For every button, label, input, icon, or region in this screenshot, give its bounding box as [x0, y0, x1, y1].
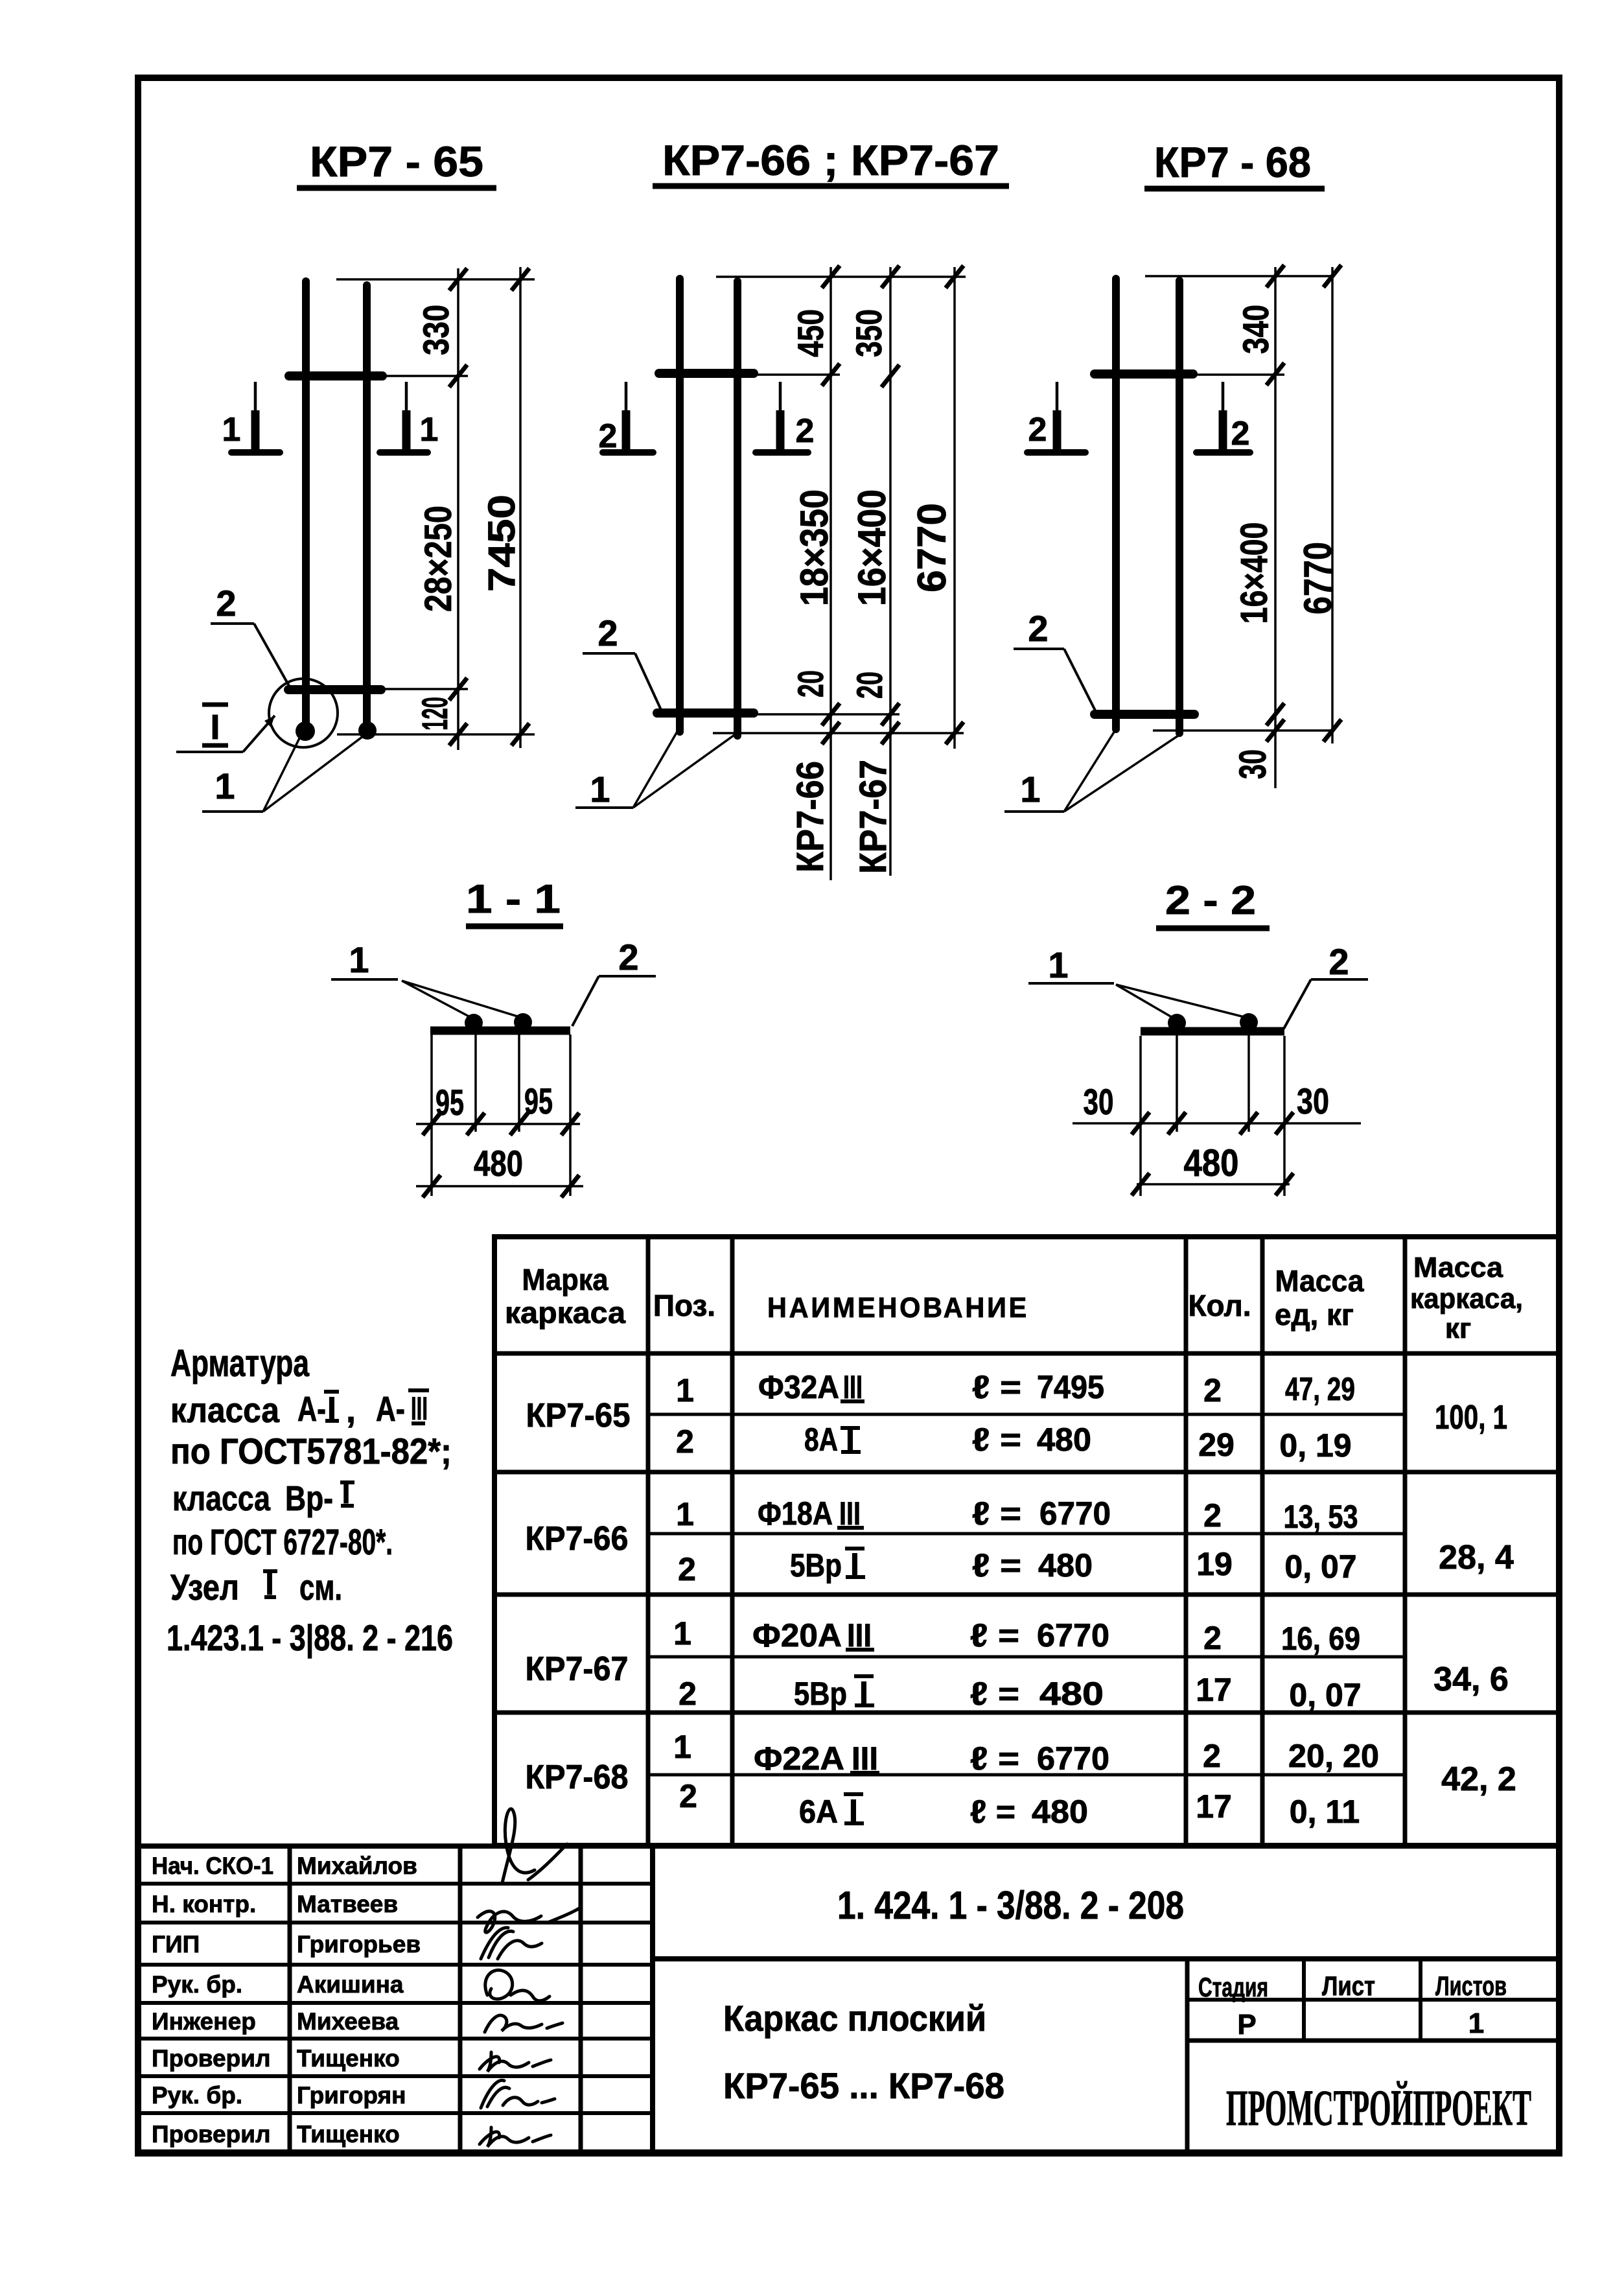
svg-text:КР7-65 ... КР7-68: КР7-65 ... КР7-68: [723, 2065, 1004, 2106]
svg-text:1: 1: [420, 411, 439, 449]
signature row 7 autograph: [481, 2080, 555, 2108]
signature row 3 autograph: [481, 1928, 542, 1959]
svg-text:20, 20: 20, 20: [1288, 1738, 1379, 1774]
KP7-66 dimension line KP7-66: [829, 267, 832, 880]
svg-text:КР7 - 65: КР7 - 65: [310, 137, 483, 185]
KP7-65 anchor dot left bar: [296, 721, 315, 741]
svg-text:95: 95: [524, 1081, 553, 1121]
section 2-2 rebar dot 1 right: [1240, 1013, 1258, 1031]
svg-text:Нач. СКО-1: Нач. СКО-1: [152, 1853, 273, 1879]
title KP7-66;67 underline: [653, 183, 1009, 189]
svg-text:КР7-68: КР7-68: [526, 1759, 629, 1796]
svg-text:КР7 - 68: КР7 - 68: [1154, 138, 1311, 186]
svg-text:Матвеев: Матвеев: [297, 1891, 398, 1917]
svg-text:ПРОМСТРОЙПРОЕКТ: ПРОМСТРОЙПРОЕКТ: [1226, 2079, 1531, 2136]
KP7-65 rebar bar pos.1 right: [363, 285, 371, 731]
svg-text:16×400: 16×400: [1233, 522, 1275, 624]
svg-text:1: 1: [673, 1615, 691, 1652]
svg-text:480: 480: [1037, 1421, 1091, 1458]
section mark 1-1 left trace line: [254, 382, 257, 410]
svg-text:30: 30: [1232, 749, 1274, 779]
svg-text:2: 2: [678, 1551, 696, 1587]
signature row 1 autograph: [502, 1809, 567, 1883]
svg-text:каркаса: каркаса: [505, 1296, 625, 1329]
KP7-66 leader label 1 line: [575, 806, 633, 809]
svg-text:1: 1: [676, 1372, 694, 1409]
section 2-2 label 2 leader: [1311, 978, 1368, 981]
KP7-68 rebar bar pos.1 right: [1176, 281, 1183, 733]
section mark 2-2 mid-left trace line: [625, 382, 628, 410]
svg-text:I: I: [210, 708, 220, 747]
signature row 6 autograph: [480, 2052, 551, 2072]
svg-text:20: 20: [849, 672, 890, 699]
svg-text:95: 95: [435, 1082, 464, 1123]
KP7-68 rebar bar pos.1 left: [1112, 279, 1120, 729]
svg-text:8А: 8А: [804, 1421, 838, 1458]
signature row 4 autograph: [485, 1970, 550, 2000]
svg-text:Григорьев: Григорьев: [297, 1931, 421, 1958]
KP7-65 leader label 2 line: [211, 622, 254, 625]
section mark 2-2 right-right thick stub: [1219, 410, 1227, 450]
section mark 2-2 mid-right trace line: [779, 382, 782, 410]
KP7-68 top extension line: [1145, 275, 1334, 277]
svg-text:2: 2: [597, 613, 618, 653]
svg-text:Поз.: Поз.: [653, 1289, 715, 1322]
svg-text:Ф18А: Ф18А: [758, 1495, 833, 1532]
KP7-66 leader label 2 line: [583, 652, 635, 655]
svg-text:Рук. бр.: Рук. бр.: [152, 1971, 242, 1998]
svg-text:ℓ =: ℓ =: [972, 1547, 1021, 1584]
svg-text:,: ,: [346, 1391, 356, 1430]
KP7-65 top extension line: [336, 278, 535, 281]
svg-text:480: 480: [1038, 1547, 1093, 1584]
section mark 2-2 right-right trace line: [1222, 382, 1225, 410]
svg-text:КР7-66: КР7-66: [789, 761, 831, 872]
drawing sheet frame border: [138, 78, 1559, 2153]
svg-text:Проверил: Проверил: [152, 2121, 270, 2147]
svg-text:6А: 6А: [799, 1794, 838, 1830]
svg-text:ед, кг: ед, кг: [1275, 1298, 1354, 1331]
svg-text:1: 1: [349, 939, 369, 980]
svg-text:350: 350: [848, 309, 889, 357]
section 1-1 plate bar: [430, 1027, 570, 1035]
svg-text:ГИП: ГИП: [152, 1931, 200, 1958]
signature table top edge: [138, 1843, 1559, 1849]
section mark 2-2 mid-left base line: [603, 449, 653, 456]
svg-text:по ГОСТ 6727-80*.: по ГОСТ 6727-80*.: [172, 1521, 393, 1562]
svg-text:20: 20: [790, 670, 831, 697]
svg-text:340: 340: [1235, 305, 1276, 354]
KP7-68 leader label 2 line: [1014, 648, 1064, 650]
signature table bottom edge: [138, 2149, 1559, 2155]
KP7-66 bottom cross rod pos.2: [657, 708, 754, 718]
svg-text:ℓ =: ℓ =: [970, 1676, 1019, 1712]
KP7-65 extension from top cross rod: [384, 375, 468, 377]
svg-text:Лист: Лист: [1322, 1971, 1375, 2001]
svg-text:Р: Р: [1237, 2009, 1256, 2041]
svg-text:2: 2: [1028, 411, 1047, 449]
svg-text:Михеева: Михеева: [297, 2008, 399, 2035]
KP7-65 leader label 1 line: [202, 810, 263, 813]
svg-text:КР7-65: КР7-65: [526, 1397, 631, 1434]
section mark 1-1 right trace line: [405, 382, 408, 410]
svg-text:7450: 7450: [481, 495, 523, 592]
section 1-1 extension lines: [430, 1035, 433, 1196]
svg-text:кг: кг: [1445, 1313, 1471, 1344]
section mark 1-1 left thick stub: [251, 410, 260, 450]
KP7-66 top extension line: [716, 275, 966, 278]
svg-text:19: 19: [1196, 1546, 1233, 1582]
KP7-66 extension from bottom cross rod: [755, 713, 899, 716]
KP7-68 bottom extension line: [1153, 729, 1334, 732]
svg-text:Ф22А: Ф22А: [754, 1740, 844, 1777]
title block stadia column line: [1185, 1959, 1190, 2153]
svg-text:ℓ =: ℓ =: [972, 1495, 1021, 1532]
svg-text:2: 2: [1203, 1497, 1222, 1534]
svg-text:480: 480: [1039, 1676, 1104, 1712]
KP7-65 node label I leader: [176, 751, 243, 753]
KP7-68 dimension line outer: [1331, 267, 1334, 743]
svg-text:0, 07: 0, 07: [1284, 1549, 1356, 1585]
svg-text:ℓ =: ℓ =: [970, 1794, 1015, 1830]
KP7-65 dimension line inner: [457, 268, 459, 750]
svg-text:28, 4: 28, 4: [1439, 1539, 1514, 1576]
svg-text:Инженер: Инженер: [152, 2008, 256, 2035]
KP7-65 extension from bottom cross rod: [385, 688, 468, 690]
svg-text:28×250: 28×250: [417, 506, 459, 612]
signature row 8 autograph: [480, 2127, 551, 2147]
svg-text:13, 53: 13, 53: [1284, 1499, 1358, 1535]
svg-text:7495: 7495: [1037, 1369, 1104, 1405]
KP7-65 anchor dot right bar: [358, 721, 377, 740]
KP7-68 extension from top cross rod: [1194, 373, 1284, 376]
svg-text:2: 2: [1203, 1620, 1222, 1656]
svg-text:Акишина: Акишина: [297, 1971, 404, 1998]
KP7-66 rebar bar pos.1 left: [676, 279, 684, 732]
section 1-1 label 2 leader: [599, 975, 656, 977]
KP7-66 rebar bar pos.1 right: [734, 281, 741, 736]
svg-text:2: 2: [679, 1778, 697, 1814]
svg-text:Арматура: Арматура: [170, 1342, 310, 1385]
section mark 2-2 mid-left thick stub: [622, 410, 631, 450]
svg-text:Михайлов: Михайлов: [297, 1853, 417, 1879]
title KP7-65 underline: [297, 185, 496, 191]
svg-text:Узел: Узел: [170, 1567, 239, 1608]
svg-text:Н. контр.: Н. контр.: [152, 1891, 256, 1917]
signature table vertical lines: [288, 1846, 292, 2153]
svg-text:2: 2: [599, 417, 618, 455]
svg-text:6770: 6770: [910, 503, 955, 592]
svg-text:ℓ =: ℓ =: [970, 1740, 1019, 1777]
svg-text:2: 2: [676, 1423, 694, 1460]
section 2-2 label 1 leader: [1028, 982, 1114, 985]
svg-text:2: 2: [1328, 941, 1349, 982]
svg-text:Ф32А: Ф32А: [758, 1369, 839, 1405]
KP7-66 dimension line overall: [953, 267, 956, 749]
svg-text:2: 2: [679, 1676, 697, 1712]
KP7-65 top cross rod pos.2: [289, 371, 382, 380]
svg-text:17: 17: [1196, 1672, 1232, 1708]
svg-text:ℓ =: ℓ =: [972, 1369, 1021, 1405]
svg-text:450: 450: [790, 309, 831, 357]
svg-text:А-: А-: [297, 1390, 326, 1429]
svg-text:30: 30: [1297, 1081, 1329, 1121]
section 2-2 title underline: [1156, 926, 1270, 931]
section mark 2-2 right-left thick stub: [1053, 410, 1061, 450]
svg-text:6770: 6770: [1296, 542, 1340, 614]
svg-text:класса: класса: [170, 1391, 280, 1430]
section mark 1-1 right thick stub: [402, 410, 411, 450]
svg-text:2: 2: [1203, 1372, 1222, 1409]
svg-text:НАИМЕНОВАНИЕ: НАИМЕНОВАНИЕ: [767, 1292, 1029, 1324]
section mark 2-2 mid-right thick stub: [776, 410, 785, 450]
svg-text:2: 2: [1203, 1738, 1221, 1774]
KP7-68 leader label 1 line: [1004, 810, 1064, 813]
svg-text:34, 6: 34, 6: [1433, 1661, 1509, 1698]
section 2-2 dim line 30-30: [1073, 1122, 1361, 1125]
svg-text:2: 2: [1231, 415, 1250, 452]
KP7-65 rebar bar pos.1 left: [302, 281, 310, 731]
parts table vertical grid lines: [646, 1237, 651, 1845]
svg-text:16, 69: 16, 69: [1281, 1620, 1360, 1657]
svg-text:18×350: 18×350: [793, 489, 836, 606]
svg-text:Тищенко: Тищенко: [297, 2045, 400, 2072]
svg-text:Стадия: Стадия: [1198, 1972, 1268, 2002]
svg-text:каркаса,: каркаса,: [1410, 1283, 1523, 1315]
parts table outer border: [494, 1237, 1559, 1845]
title block stadia/list value line: [1187, 2039, 1559, 2043]
parts table header bottom line: [494, 1351, 1559, 1356]
svg-text:КР7-67: КР7-67: [852, 760, 894, 874]
svg-text:480: 480: [474, 1143, 523, 1184]
svg-text:Марка: Марка: [522, 1263, 609, 1296]
svg-text:2 - 2: 2 - 2: [1165, 878, 1256, 923]
svg-text:1: 1: [676, 1496, 694, 1532]
svg-text:Кол.: Кол.: [1188, 1289, 1251, 1322]
svg-text:2: 2: [618, 937, 638, 977]
section 1-1 label 1 leader: [331, 978, 398, 981]
svg-text:1.423.1 - 3|88. 2 - 216: 1.423.1 - 3|88. 2 - 216: [167, 1617, 453, 1659]
KP7-65 bottom extension line: [337, 733, 535, 736]
svg-text:47, 29: 47, 29: [1285, 1371, 1355, 1407]
svg-text:120: 120: [414, 697, 455, 731]
svg-text:0, 11: 0, 11: [1290, 1794, 1360, 1830]
svg-text:1: 1: [215, 766, 235, 806]
svg-text:1: 1: [590, 769, 610, 810]
section mark 2-2 right-left base line: [1027, 449, 1085, 456]
svg-text:Вр-: Вр-: [285, 1479, 333, 1518]
svg-text:1: 1: [1020, 769, 1040, 810]
svg-text:Ф20А: Ф20А: [752, 1617, 842, 1654]
svg-text:III: III: [411, 1390, 428, 1427]
svg-text:1: 1: [673, 1729, 691, 1765]
svg-text:5Вр: 5Вр: [794, 1676, 847, 1712]
section 1-1 dim line 480: [416, 1185, 583, 1187]
svg-text:330: 330: [415, 305, 456, 355]
svg-text:Григорян: Григорян: [297, 2082, 406, 2109]
KP7-65 dimension line outer: [519, 267, 522, 748]
title block list column line: [1302, 1959, 1306, 2041]
svg-text:Тищенко: Тищенко: [297, 2121, 400, 2147]
svg-text:Масса: Масса: [1275, 1264, 1364, 1298]
svg-text:КР7-66: КР7-66: [526, 1520, 629, 1558]
signature row 2 autograph: [478, 1907, 581, 1932]
svg-text:0, 07: 0, 07: [1289, 1677, 1361, 1713]
svg-text:см.: см.: [299, 1567, 342, 1608]
svg-text:2: 2: [796, 412, 815, 450]
svg-text:480: 480: [1184, 1142, 1239, 1184]
signature row 5 autograph: [485, 2015, 563, 2032]
svg-text:6770: 6770: [1037, 1617, 1109, 1654]
section 2-2 dim line 480: [1137, 1183, 1290, 1186]
section 2-2 rebar dot 1 left: [1168, 1014, 1186, 1032]
KP7-68 top cross rod pos.2: [1095, 369, 1193, 379]
svg-text:17: 17: [1196, 1788, 1232, 1825]
svg-text:1: 1: [222, 411, 241, 449]
svg-text:5Вр: 5Вр: [790, 1547, 842, 1584]
svg-text:Масса: Масса: [1413, 1252, 1503, 1283]
title KP7-68 underline: [1144, 186, 1325, 192]
section 2-2 extension lines: [1139, 1036, 1142, 1196]
section mark 1-1 left base line: [231, 449, 280, 456]
section 2-2 plate bar: [1141, 1027, 1284, 1036]
KP7-66 extension from top cross rod: [755, 373, 840, 376]
svg-text:16×400: 16×400: [850, 489, 894, 606]
svg-text:1: 1: [1468, 2007, 1484, 2039]
svg-text:6770: 6770: [1039, 1495, 1111, 1532]
svg-text:ℓ =: ℓ =: [970, 1617, 1019, 1654]
section mark 2-2 right-right base line: [1196, 449, 1250, 456]
title block listov column line: [1419, 1959, 1422, 2041]
title block left edge: [650, 1846, 655, 2153]
parts table sub-row split lines: [648, 1413, 1405, 1416]
title block document number cell bottom: [653, 1956, 1559, 1961]
svg-text:480: 480: [1032, 1794, 1088, 1830]
KP7-66 top cross rod pos.2: [659, 369, 754, 378]
svg-text:6770: 6770: [1037, 1740, 1109, 1777]
KP7-68 dimension line inner: [1274, 267, 1277, 788]
section 1-1 dim line 95-95: [416, 1123, 580, 1125]
svg-text:1 - 1: 1 - 1: [466, 877, 561, 922]
svg-text:Каркас плоский: Каркас плоский: [723, 1998, 986, 2039]
svg-text:класса: класса: [172, 1479, 271, 1518]
svg-text:КР7-67: КР7-67: [526, 1650, 629, 1688]
svg-text:29: 29: [1198, 1427, 1235, 1463]
section 1-1 title underline: [466, 924, 563, 930]
svg-text:1. 424. 1 - 3/88. 2 - 208: 1. 424. 1 - 3/88. 2 - 208: [837, 1884, 1184, 1927]
title block stadia/list header line: [1187, 1998, 1559, 2002]
svg-text:КР7-66 ; КР7-67: КР7-66 ; КР7-67: [662, 136, 999, 184]
section mark 2-2 mid-right base line: [756, 449, 808, 456]
KP7-66 bottom extension line: [713, 732, 964, 734]
svg-text:2: 2: [216, 583, 236, 624]
svg-text:0, 19: 0, 19: [1279, 1427, 1351, 1464]
svg-text:А-: А-: [376, 1390, 405, 1429]
svg-text:ℓ =: ℓ =: [972, 1421, 1021, 1458]
svg-text:30: 30: [1084, 1081, 1114, 1122]
signature table row lines: [138, 1882, 653, 1886]
svg-text:Рук. бр.: Рук. бр.: [152, 2082, 242, 2109]
svg-text:2: 2: [1028, 608, 1048, 649]
KP7-68 bottom cross rod pos.2: [1095, 710, 1194, 719]
section 1-1 rebar dot 1 right: [514, 1013, 532, 1031]
KP7-65 node I detail circle: [269, 679, 338, 747]
svg-text:Проверил: Проверил: [152, 2045, 270, 2072]
parts table group separator lines: [494, 1470, 1559, 1475]
section 1-1 rebar dot 1 left: [465, 1014, 483, 1032]
section mark 1-1 right base line: [380, 449, 428, 456]
section mark 2-2 right-left trace line: [1056, 382, 1059, 410]
svg-text:1: 1: [1048, 944, 1068, 985]
KP7-65 bottom cross rod pos.2: [288, 685, 381, 694]
svg-text:Листов: Листов: [1435, 1971, 1507, 2001]
KP7-67 dimension line KP7-67: [889, 267, 892, 876]
svg-text:42, 2: 42, 2: [1441, 1760, 1516, 1798]
svg-text:по ГОСТ5781-82*;: по ГОСТ5781-82*;: [170, 1431, 452, 1471]
svg-text:100, 1: 100, 1: [1435, 1399, 1507, 1436]
